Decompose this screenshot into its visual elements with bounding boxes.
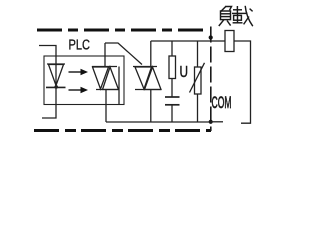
photo-triac top terminal [104,43,106,67]
main triac bottom terminal [150,90,152,123]
负载 load label [219,6,253,26]
load circuit wire top [211,40,225,42]
top dash-dot boundary [37,29,205,32]
snubber capacitor C [165,97,180,122]
photo-triac of optocoupler [92,67,119,105]
载 [233,9,242,11]
snubber resistor R [169,41,176,97]
负 [221,6,227,12]
top bus wire [151,40,211,42]
svg-text:COM: COM [212,94,232,112]
light arrow 2 [69,87,89,93]
bottom dash-dot boundary [34,129,211,132]
varistor RV [190,41,205,122]
load resistor [225,31,234,52]
bottom bus wire [106,121,211,123]
svg-text:PLC: PLC [69,38,91,54]
COM terminal dot [209,120,213,124]
main triac T1 [133,67,161,90]
right dashed boundary post [210,27,212,132]
gate wire to main triac [105,43,142,65]
wire input bottom return [42,87,56,118]
load circuit wire right [234,41,251,123]
wire input top [39,46,56,88]
svg-text:U: U [180,64,189,81]
LED D1 [46,64,66,89]
light arrow 1 [69,69,89,75]
photo-triac bottom terminal [105,90,107,123]
main triac top terminal [150,41,152,67]
output terminal dot [209,35,213,39]
COM wire stub [211,121,223,123]
optocoupler box [44,56,124,105]
